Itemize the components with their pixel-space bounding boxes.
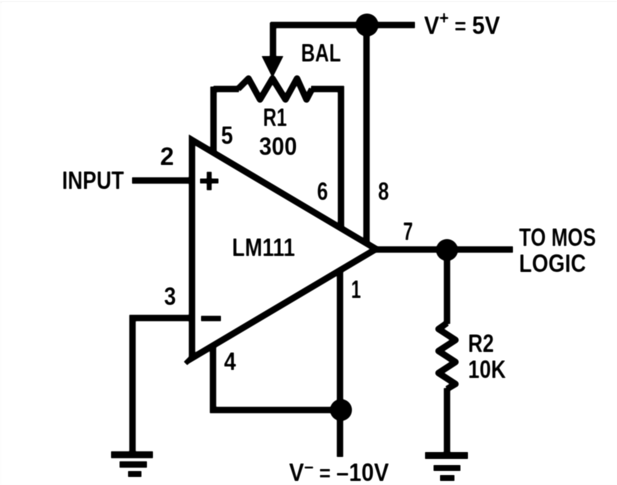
wire R2 bottom lead to ground <box>444 388 451 453</box>
ground symbol left bar1 <box>111 451 153 458</box>
ground symbol left bar3 <box>128 471 142 477</box>
ground symbol left bar2 <box>120 461 148 468</box>
svg-text:1: 1 <box>351 276 361 304</box>
svg-text:7: 7 <box>403 218 413 246</box>
svg-text:3: 3 <box>164 283 176 311</box>
ground symbol right bar3 <box>440 475 455 481</box>
potentiometer wiper arrowhead <box>262 56 284 78</box>
svg-text:LM111: LM111 <box>232 234 295 262</box>
resistor R1 zigzag body <box>238 79 312 100</box>
wire output pin 7 <box>374 246 513 253</box>
svg-text:6: 6 <box>317 178 328 206</box>
wire pin 1 lead down through V- node <box>337 272 344 457</box>
op-amp U1 LM111 triangle <box>192 140 376 358</box>
wire pin 4 lead down and right to V- node <box>213 346 341 410</box>
svg-text:4: 4 <box>224 348 236 376</box>
svg-text:TO MOS: TO MOS <box>519 224 596 252</box>
scan frame left edge <box>1 1 2 485</box>
svg-text:300: 300 <box>259 133 297 161</box>
wire pin 5 lead down to op-amp <box>210 87 217 153</box>
ground symbol right bar1 <box>425 452 468 459</box>
op-amp corner spur bottom-left <box>186 356 194 364</box>
svg-text:INPUT: INPUT <box>62 167 124 195</box>
wire R1 left lead <box>214 86 240 93</box>
ground symbol right bar2 <box>434 465 461 471</box>
svg-text:BAL: BAL <box>301 40 341 68</box>
junction dot at V+ rail <box>356 14 379 37</box>
resistor R2 zigzag body <box>439 323 456 389</box>
wire INPUT lead to pin 2 <box>132 177 192 184</box>
scan frame top edge <box>0 1 617 3</box>
svg-text:V– = –10V: V– = –10V <box>289 457 389 485</box>
minus symbol inverting input <box>201 316 221 322</box>
svg-text:2: 2 <box>160 143 174 171</box>
wire R1 right lead to pin 6 <box>311 89 341 228</box>
wire V+ rail top horizontal <box>271 22 416 29</box>
plus symbol noninverting input <box>200 172 219 190</box>
wire pin 8 lead from V+ rail down to op-amp <box>363 25 370 245</box>
wire pin 3 lead and drop to ground <box>133 318 193 452</box>
svg-text:LOGIC: LOGIC <box>519 250 586 278</box>
wire output node down to R2 <box>444 250 451 324</box>
svg-text:5: 5 <box>221 122 233 150</box>
svg-text:10K: 10K <box>468 356 506 384</box>
junction dot at output node <box>436 239 458 261</box>
svg-text:R1: R1 <box>263 104 287 132</box>
junction dot at V- node <box>330 399 352 421</box>
svg-text:8: 8 <box>378 178 389 206</box>
wire potentiometer wiper drop from V+ rail <box>270 23 277 59</box>
svg-text:R2: R2 <box>468 330 494 358</box>
